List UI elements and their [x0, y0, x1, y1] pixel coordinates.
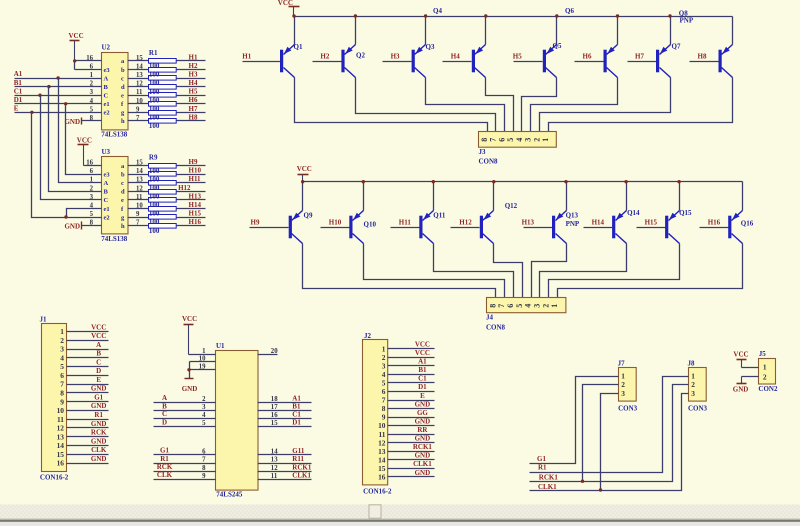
wire J1 pin 11: [67, 419, 109, 421]
svg-text:H7: H7: [189, 105, 198, 113]
wire Q7 emitter to rail: [670, 17, 672, 45]
svg-text:100: 100: [149, 114, 160, 122]
node C1 (U1 pin 16): [258, 410, 312, 419]
svg-text:e2: e2: [104, 110, 110, 117]
svg-text:H10: H10: [189, 167, 202, 175]
junction (rail / Q10): [362, 180, 365, 183]
node H8 (base wire): [690, 52, 719, 61]
svg-text:100: 100: [149, 62, 160, 70]
node H15 (base wire): [637, 218, 666, 227]
svg-text:H16: H16: [708, 218, 721, 226]
wire Q9 emitter to rail: [302, 182, 304, 211]
transistor Q4 PNP: [472, 45, 486, 78]
svg-text:Q6: Q6: [565, 7, 574, 15]
svg-text:4: 4: [202, 412, 206, 419]
wire Q8 emitter to rail: [732, 17, 734, 45]
svg-text:A1: A1: [14, 70, 23, 78]
svg-text:12: 12: [271, 465, 278, 472]
node CLK (U1 pin 9): [154, 471, 216, 480]
svg-text:J2: J2: [364, 332, 372, 340]
scrollbar checker texture: [0, 505, 800, 519]
VCC power symbol (row 2 rail): [297, 165, 312, 181]
resistor R1+6 100ohm row 7: [128, 111, 206, 116]
wire U1 pins 10,19 to GND: [190, 361, 216, 363]
svg-text:B1: B1: [292, 403, 301, 411]
svg-text:5: 5: [515, 304, 524, 308]
junction (C1 branch): [38, 94, 41, 97]
wire CLK1 to J8 pin 3: [530, 394, 689, 491]
resistor R9+2 100ohm row 3: [128, 181, 206, 186]
svg-text:D1: D1: [418, 383, 427, 391]
svg-text:CON16-2: CON16-2: [363, 488, 392, 496]
svg-text:GND: GND: [415, 435, 431, 443]
connector J5 CON2: [758, 350, 778, 393]
wire J2 pin 12: [388, 442, 435, 444]
svg-text:16: 16: [378, 473, 386, 482]
svg-text:GND: GND: [415, 400, 431, 408]
svg-text:J7: J7: [618, 359, 626, 367]
resistor R9+5 100ohm row 6: [128, 207, 206, 212]
svg-text:CON3: CON3: [618, 405, 638, 413]
transistor Q1 PNP: [280, 45, 295, 78]
svg-text:C: C: [104, 93, 109, 100]
svg-text:2: 2: [202, 396, 206, 403]
svg-text:2: 2: [763, 372, 767, 381]
transistor Q7 PNP: [656, 45, 671, 78]
svg-text:CLK1: CLK1: [292, 471, 311, 479]
svg-text:100: 100: [149, 184, 160, 192]
svg-text:Q2: Q2: [356, 52, 365, 60]
wire J2 pin 6: [388, 391, 435, 393]
svg-text:10: 10: [57, 406, 65, 415]
wire J1 pin 9: [67, 401, 109, 403]
svg-text:3: 3: [60, 345, 64, 354]
svg-text:CLK: CLK: [157, 471, 173, 479]
resistor R1+5 100ohm row 6: [128, 102, 206, 107]
svg-text:6: 6: [497, 138, 506, 142]
svg-text:RR: RR: [417, 426, 428, 434]
wire Q2 emitter to rail: [355, 17, 357, 45]
wire VCC to U2 pin 16: [75, 60, 102, 62]
node A (U1 pin 2): [154, 394, 216, 403]
svg-text:CON2: CON2: [758, 385, 778, 393]
node B1 (U1 pin 17): [258, 403, 312, 412]
svg-text:VCC: VCC: [91, 332, 106, 340]
svg-text:c: c: [121, 75, 124, 82]
svg-text:19: 19: [199, 363, 206, 370]
svg-text:J3: J3: [479, 148, 487, 156]
wire J1 pin 12: [67, 427, 109, 429]
wire VCC to J5 pin 1: [742, 367, 759, 369]
wire Q16 collector to J4 pin: [558, 244, 743, 298]
wire Q7 collector to J3 pin: [540, 78, 671, 132]
svg-text:E: E: [14, 105, 19, 113]
svg-text:R1: R1: [538, 464, 547, 472]
svg-text:H12: H12: [459, 218, 472, 226]
VCC power symbol (U1): [182, 315, 197, 355]
wire D1 branch to U3 pin 6: [66, 104, 102, 175]
svg-text:H13: H13: [189, 192, 202, 200]
wire Q8 collector to J3 pin: [549, 78, 733, 132]
wire J1 pin 14: [67, 445, 109, 447]
svg-text:4: 4: [524, 304, 533, 308]
wire Q5 collector to J3 pin: [522, 78, 557, 132]
svg-text:E: E: [420, 392, 425, 400]
resistor R1+4 100ohm row 5: [128, 93, 206, 98]
svg-text:GND: GND: [182, 385, 198, 393]
wire Q2 collector to J3 pin: [356, 78, 496, 132]
svg-text:8: 8: [202, 465, 206, 472]
wire J2 pin 4: [388, 374, 435, 376]
connector J8 CON3: [688, 359, 708, 412]
resistor R1+7 100ohm row 8: [128, 119, 206, 124]
svg-text:2: 2: [60, 336, 64, 345]
svg-text:RCK1: RCK1: [413, 443, 433, 451]
wire J2 pin 3: [388, 365, 435, 367]
svg-text:H1: H1: [242, 52, 251, 60]
junction (rail / Q7): [668, 14, 671, 17]
wire E to U3 pin 4: [67, 209, 102, 218]
svg-text:Q1: Q1: [294, 43, 303, 51]
node D1 input line: [14, 96, 102, 104]
svg-text:A: A: [104, 180, 109, 187]
svg-text:CLK1: CLK1: [413, 460, 432, 468]
wire GND to U2 pin 8: [82, 120, 102, 122]
scrollbar track: [0, 505, 800, 519]
svg-text:H14: H14: [189, 201, 202, 209]
svg-text:H7: H7: [635, 52, 644, 60]
svg-text:H4: H4: [451, 52, 460, 60]
svg-text:7: 7: [60, 380, 64, 389]
svg-text:Q15: Q15: [679, 209, 692, 217]
svg-text:H2: H2: [320, 52, 329, 60]
junction (rail / Q15): [677, 180, 680, 183]
node A1 (U1 pin 18): [258, 394, 312, 403]
svg-text:2: 2: [541, 304, 550, 308]
wire G1 to J7 pin 1: [530, 377, 619, 464]
svg-text:100: 100: [149, 210, 160, 218]
wire J1 pin 15: [67, 454, 109, 456]
svg-text:100: 100: [149, 122, 160, 130]
wire Q14 collector to J4 pin: [540, 244, 627, 298]
svg-text:VCC: VCC: [733, 351, 748, 359]
node H12 (base wire): [451, 218, 480, 227]
wire Q12 collector to J4 pin: [494, 244, 523, 298]
wire J1 pin 6: [67, 375, 109, 377]
svg-text:7: 7: [202, 457, 206, 464]
node H16 (base wire): [700, 218, 729, 227]
wire Q9 collector to J4 pin: [303, 244, 496, 298]
junction (RCK1 / J7.2): [581, 480, 584, 483]
resistor R1 100ohm row 1: [128, 59, 206, 64]
wire RCK1 to J8 pin 2: [530, 385, 689, 482]
svg-text:18: 18: [271, 396, 278, 403]
wire Q10 emitter to rail: [363, 182, 365, 211]
svg-text:VCC: VCC: [415, 341, 430, 349]
svg-text:H1: H1: [189, 53, 198, 61]
junction (rail / Q5): [555, 14, 558, 17]
svg-text:H9: H9: [189, 158, 198, 166]
svg-text:b: b: [121, 67, 125, 74]
scrollbar thumb: [369, 505, 381, 518]
svg-text:H9: H9: [251, 218, 260, 226]
wire Q11 emitter to rail: [433, 182, 435, 211]
svg-text:Q5: Q5: [553, 42, 562, 50]
transistor Q2 PNP: [341, 45, 355, 78]
wire A1 branch to U3 pin 1: [59, 79, 102, 183]
VCC power symbol (row 1 rail): [278, 0, 300, 17]
svg-text:e: e: [121, 93, 124, 100]
node CLK1 (U1 pin 11): [258, 471, 312, 480]
connector J3 CON8: [479, 132, 557, 166]
wire C1 branch to U3 pin 3: [41, 96, 102, 200]
svg-text:4: 4: [515, 138, 524, 142]
svg-text:6: 6: [506, 304, 515, 308]
resistor R9 100ohm row 1: [128, 164, 206, 169]
wire Q4 collector to J3 pin: [486, 78, 514, 132]
wire Q6 collector to J3 pin: [531, 78, 618, 132]
svg-text:H11: H11: [189, 175, 202, 183]
svg-text:GND: GND: [91, 420, 107, 428]
wire Q13 emitter to rail: [566, 182, 568, 211]
svg-text:H4: H4: [189, 79, 198, 87]
wire J2 pin 9: [388, 417, 435, 419]
wire Q5 emitter to rail: [556, 17, 558, 45]
node B (U1 pin 3): [154, 402, 216, 411]
svg-text:G11: G11: [292, 447, 305, 455]
IC U3 74LS138: [86, 148, 143, 243]
wire Q3 collector to J3 pin: [426, 78, 505, 132]
wire J2 pin 15: [388, 468, 435, 470]
IC U2 74LS138: [86, 43, 143, 138]
svg-text:9: 9: [202, 473, 206, 480]
wire Q12 emitter to rail: [493, 182, 495, 211]
svg-text:15: 15: [57, 450, 65, 459]
svg-text:5: 5: [60, 362, 64, 371]
svg-text:Q3: Q3: [426, 43, 435, 51]
svg-text:CLK: CLK: [91, 446, 107, 454]
wire VCC rail row 2: [303, 181, 743, 183]
svg-text:100: 100: [149, 167, 160, 175]
junction (rail / Q6): [616, 14, 619, 17]
svg-text:B: B: [104, 189, 109, 196]
svg-text:13: 13: [271, 457, 278, 464]
node C (U1 pin 4): [154, 410, 216, 419]
wire J2 pin 8: [388, 408, 435, 410]
wire VCC rail row 1: [294, 16, 733, 18]
svg-text:1: 1: [541, 138, 550, 142]
wire J1 pin 7: [67, 384, 109, 386]
svg-text:G1: G1: [537, 455, 546, 463]
svg-text:PNP: PNP: [680, 17, 694, 25]
junction (rail / Q4): [484, 14, 487, 17]
node G1 (U1 pin 6): [154, 447, 216, 456]
GND power symbol (J5): [733, 384, 749, 394]
wire B1 branch to U3 pin 2: [49, 87, 102, 192]
node RCK (U1 pin 8): [154, 463, 216, 472]
svg-text:14: 14: [57, 441, 65, 450]
svg-text:GND: GND: [91, 455, 107, 463]
svg-text:C1: C1: [292, 410, 301, 418]
wire J2 pin 11: [388, 434, 435, 436]
svg-text:GND: GND: [91, 385, 107, 393]
junction (CLK1 / J7.3): [599, 488, 602, 491]
svg-text:3: 3: [202, 404, 206, 411]
svg-text:G1: G1: [94, 394, 103, 402]
svg-text:Q12: Q12: [505, 202, 518, 210]
svg-text:VCC: VCC: [77, 137, 92, 145]
wire J1 pin 13: [67, 436, 109, 438]
GND power symbol (U1): [182, 379, 198, 394]
node B1 input line: [14, 79, 102, 87]
VCC power symbol (U3): [77, 137, 92, 166]
window edge: [0, 519, 800, 520]
wire J2 pin 7: [388, 400, 435, 402]
junction (rail / Q1): [292, 14, 295, 17]
wire J2 pin 10: [388, 425, 435, 427]
svg-text:H15: H15: [189, 210, 202, 218]
wire E branch to U3 pin 5: [32, 113, 102, 218]
node H1 (base wire): [242, 52, 280, 61]
svg-text:h: h: [121, 223, 125, 230]
svg-text:RCK1: RCK1: [539, 474, 559, 482]
node H6 (base wire): [575, 52, 604, 61]
wire VCC to U1 pin 1: [189, 354, 216, 356]
svg-text:100: 100: [149, 71, 160, 79]
node H2 (base wire): [313, 52, 342, 61]
node H3 (base wire): [383, 52, 412, 61]
svg-text:VCC: VCC: [91, 323, 106, 331]
svg-text:16: 16: [271, 412, 278, 419]
svg-text:H3: H3: [189, 71, 198, 79]
svg-text:3: 3: [533, 304, 542, 308]
node H9 (base wire): [250, 218, 289, 227]
node E input line: [14, 105, 102, 113]
wire J2 pin 14: [388, 459, 435, 461]
wire J1 pin 3: [67, 349, 109, 351]
resistor R1+2 100ohm row 3: [128, 76, 206, 81]
svg-text:5: 5: [506, 138, 515, 142]
svg-text:G1: G1: [160, 447, 169, 455]
node D (U1 pin 5): [154, 418, 216, 427]
resistor R1+3 100ohm row 4: [128, 85, 206, 90]
wire Q15 collector to J4 pin: [549, 244, 680, 298]
svg-text:1: 1: [202, 348, 206, 355]
wire VCC to U3 pin 16: [84, 165, 102, 167]
svg-text:H6: H6: [189, 96, 198, 104]
node H14 (base wire): [584, 218, 613, 227]
svg-text:8: 8: [60, 389, 64, 398]
wire VCC to U2 pin 6, junction at pin 16: [74, 61, 76, 70]
transistor Q11 PNP: [419, 211, 433, 244]
svg-text:H14: H14: [592, 218, 605, 226]
svg-text:d: d: [121, 84, 125, 91]
wire Q10 collector to J4 pin: [364, 244, 505, 298]
svg-text:C: C: [162, 410, 167, 418]
transistor Q15 PNP: [665, 211, 679, 244]
svg-text:D: D: [162, 418, 167, 426]
svg-text:e3: e3: [104, 172, 111, 179]
svg-text:A: A: [162, 394, 167, 402]
wire J2 pin 1: [388, 348, 435, 350]
svg-text:H13: H13: [522, 218, 535, 226]
svg-text:J1: J1: [40, 316, 48, 324]
wire GND to U3 pin 8: [82, 225, 102, 227]
svg-text:RCK: RCK: [91, 429, 107, 437]
svg-text:e1: e1: [104, 101, 110, 108]
junction (rail / Q12): [492, 180, 495, 183]
wire Q1 emitter to rail: [294, 17, 296, 45]
svg-text:GND: GND: [415, 452, 431, 460]
junction (rail / Q11): [432, 180, 435, 183]
svg-text:GND: GND: [64, 223, 80, 231]
svg-text:J5: J5: [759, 350, 767, 358]
svg-text:C: C: [104, 197, 109, 204]
svg-text:GND: GND: [91, 437, 107, 445]
wire Q16 emitter to rail: [742, 182, 744, 211]
junction (D1 branch): [64, 102, 67, 105]
wire Q6 emitter to rail: [617, 17, 619, 45]
svg-text:6: 6: [60, 371, 64, 380]
wire R1 to J8 pin 1: [530, 377, 689, 473]
wire Q3 emitter to rail: [425, 17, 427, 45]
svg-text:Q16: Q16: [741, 220, 754, 228]
wire J1 pin 8: [67, 392, 109, 394]
svg-text:3: 3: [524, 138, 533, 142]
wire J1 pin 10: [67, 410, 109, 412]
transistor Q3 PNP: [412, 45, 426, 78]
svg-text:74LS138: 74LS138: [101, 235, 128, 243]
svg-text:10: 10: [199, 355, 206, 362]
node H7 (base wire): [628, 52, 657, 61]
svg-text:GG: GG: [417, 409, 428, 417]
svg-text:H6: H6: [583, 52, 592, 60]
svg-text:U1: U1: [216, 342, 225, 350]
svg-text:H15: H15: [645, 218, 658, 226]
IC U1 74LS245: [216, 342, 259, 499]
svg-text:GND: GND: [415, 417, 431, 425]
wire J1 pin 2: [67, 340, 109, 342]
svg-text:D1: D1: [292, 419, 301, 427]
svg-text:RCK1: RCK1: [292, 463, 312, 471]
svg-text:100: 100: [149, 193, 160, 201]
svg-text:B1: B1: [418, 366, 427, 374]
wire CLK1 branch to J7 pin 3: [601, 394, 619, 491]
svg-text:H3: H3: [391, 52, 400, 60]
svg-text:H11: H11: [399, 218, 412, 226]
node D1 (U1 pin 15): [258, 419, 312, 428]
svg-text:J4: J4: [486, 314, 494, 322]
svg-text:B: B: [96, 350, 101, 358]
svg-text:H2: H2: [189, 62, 198, 70]
svg-text:CON8: CON8: [486, 323, 506, 331]
svg-text:3: 3: [691, 389, 695, 398]
svg-text:B: B: [162, 402, 167, 410]
svg-text:100: 100: [149, 227, 160, 235]
svg-text:GND: GND: [415, 469, 431, 477]
svg-text:17: 17: [271, 404, 278, 411]
svg-text:R1: R1: [160, 455, 169, 463]
junction (E / U3 pin4 branch): [64, 215, 67, 218]
connector J7 CON3: [618, 359, 638, 412]
svg-text:GND: GND: [64, 118, 80, 126]
svg-text:100: 100: [149, 96, 160, 104]
svg-text:VCC: VCC: [415, 349, 430, 357]
svg-text:C1: C1: [14, 87, 23, 95]
wire Q15 emitter to rail: [679, 182, 681, 211]
svg-text:H5: H5: [189, 88, 198, 96]
resistor R9+6 100ohm row 7: [128, 215, 206, 220]
